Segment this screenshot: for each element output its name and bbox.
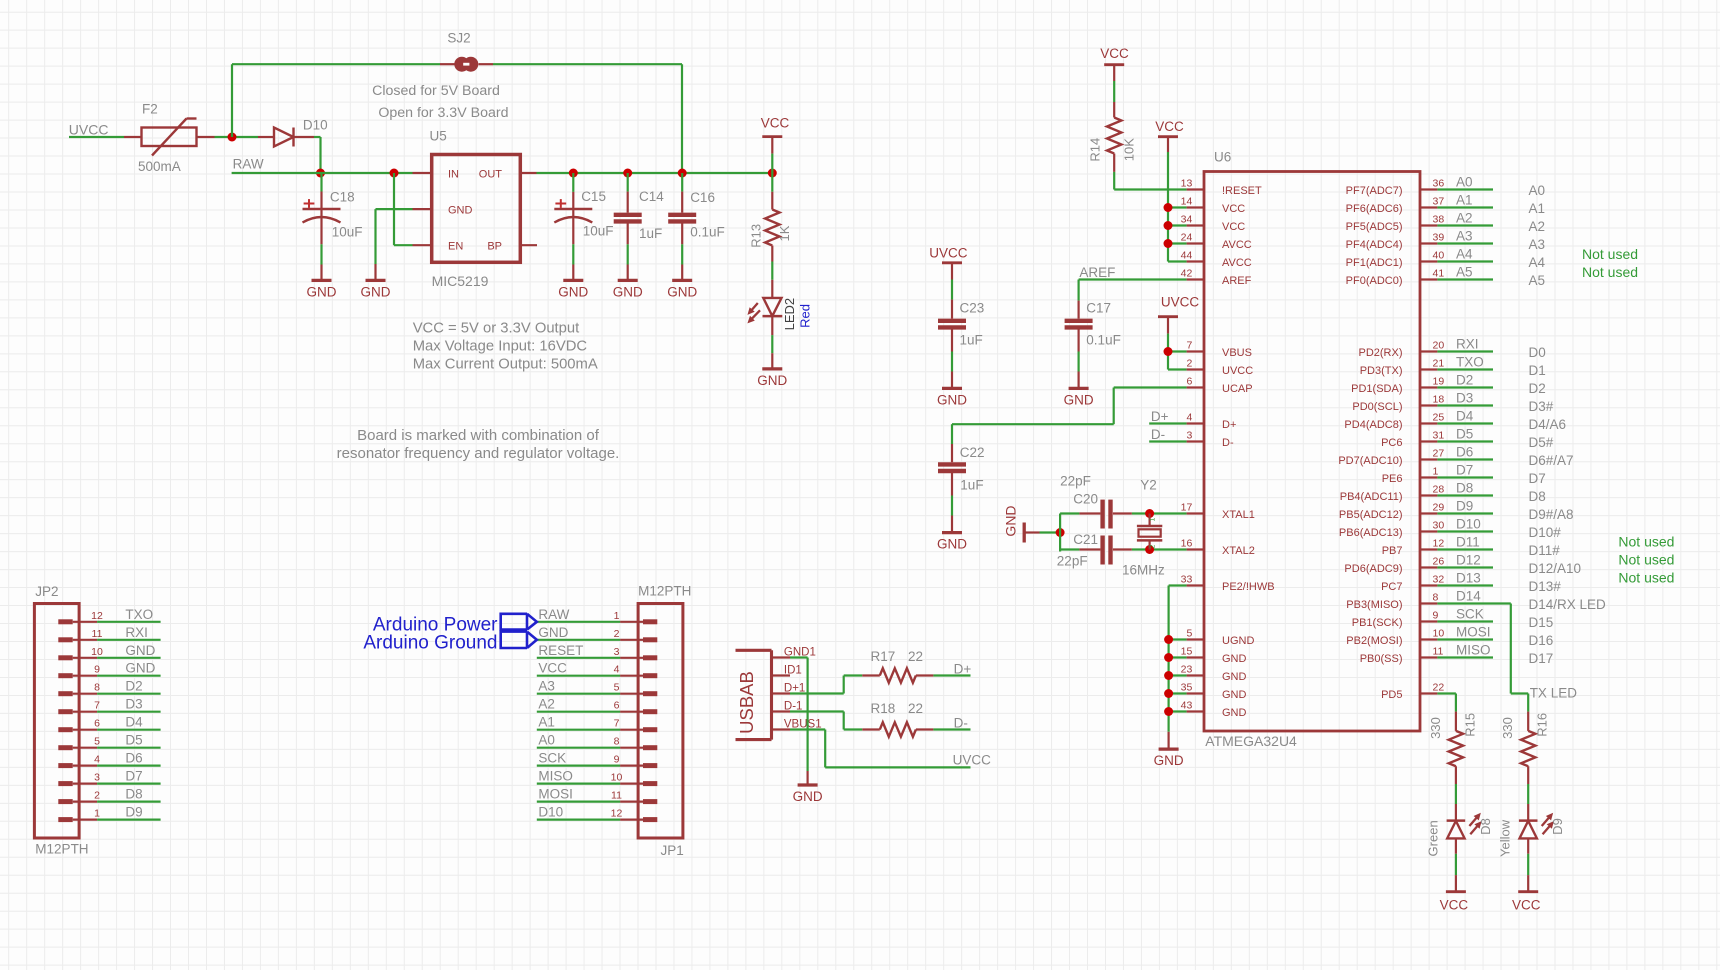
U6 pin 17 XTAL1: [1187, 512, 1204, 514]
USBAB pin VBUS1: [772, 728, 791, 730]
svg-text:AREF: AREF: [1222, 275, 1252, 287]
ground below C23: [942, 387, 962, 390]
svg-text:500mA: 500mA: [138, 159, 181, 174]
svg-text:Max Current Output: 500mA: Max Current Output: 500mA: [413, 356, 598, 372]
USBAB pin D-1: [772, 710, 791, 712]
wire D8 net: [1437, 494, 1493, 496]
svg-text:10uF: 10uF: [583, 224, 614, 239]
svg-text:37: 37: [1433, 196, 1445, 208]
svg-text:PB6(ADC13): PB6(ADC13): [1339, 527, 1403, 539]
LED D9: [1527, 804, 1529, 821]
svg-text:GND: GND: [1154, 753, 1184, 768]
svg-text:A1: A1: [1456, 193, 1473, 208]
svg-text:8: 8: [1433, 592, 1439, 604]
svg-text:8: 8: [94, 682, 100, 694]
svg-text:A4: A4: [1529, 255, 1546, 270]
svg-text:TXO: TXO: [1456, 355, 1484, 370]
svg-text:VCC: VCC: [761, 115, 790, 130]
wire R14 to !RESET: [1113, 172, 1115, 190]
svg-text:14: 14: [1181, 196, 1193, 208]
svg-text:5: 5: [1186, 628, 1192, 640]
svg-text:UVCC: UVCC: [953, 753, 992, 768]
svg-text:D3: D3: [1456, 391, 1473, 406]
U6 pin 22 PD5: [1420, 692, 1437, 694]
svg-text:GND: GND: [1222, 689, 1247, 701]
svg-text:6: 6: [94, 718, 100, 730]
capacitor C15: [572, 173, 574, 192]
wire VBUS1 to UVCC: [790, 728, 825, 730]
svg-text:D+: D+: [1151, 409, 1169, 424]
USB connector USBAB: [736, 649, 772, 652]
svg-text:GND: GND: [1003, 505, 1019, 536]
U6 pin 8 PB3(MISO): [1420, 602, 1437, 604]
svg-text:16: 16: [1181, 538, 1193, 550]
svg-text:MOSI: MOSI: [538, 787, 573, 802]
svg-text:PB4(ADC11): PB4(ADC11): [1340, 491, 1403, 503]
capacitor C21: [1079, 548, 1100, 550]
svg-text:A5: A5: [1529, 273, 1546, 288]
svg-text:BP: BP: [487, 240, 502, 252]
svg-text:C21: C21: [1073, 532, 1098, 547]
JP1 pin 8 (A0): [620, 747, 643, 749]
svg-text:1: 1: [1433, 466, 1439, 478]
JP2 pin 12 (TXO): [58, 619, 72, 624]
svg-text:PD3(TX): PD3(TX): [1360, 365, 1403, 377]
svg-text:D7: D7: [1529, 471, 1546, 486]
junction RAW-EN tap: [390, 169, 399, 178]
svg-text:C20: C20: [1073, 492, 1098, 507]
svg-text:VCC: VCC: [1222, 221, 1245, 233]
wire GND1 to ground: [790, 656, 808, 658]
svg-text:EN: EN: [448, 240, 463, 252]
svg-text:12: 12: [611, 808, 623, 820]
wire up to SJ2 rail: [231, 64, 233, 137]
svg-text:3: 3: [614, 646, 620, 658]
U6 pin 7 VBUS: [1187, 350, 1204, 352]
JP2 pin 2 (D8): [58, 799, 72, 804]
svg-text:GND: GND: [361, 284, 391, 299]
svg-text:D7: D7: [125, 769, 142, 784]
wire R16 to LED: [1527, 784, 1529, 804]
svg-text:ATMEGA32U4: ATMEGA32U4: [1205, 733, 1297, 749]
wire A2 net: [1437, 224, 1493, 226]
svg-text:AREF: AREF: [1079, 265, 1115, 280]
svg-text:TX LED: TX LED: [1530, 686, 1578, 701]
svg-text:GND: GND: [558, 284, 588, 299]
svg-text:28: 28: [1433, 484, 1445, 496]
svg-text:11: 11: [611, 790, 622, 802]
svg-text:A3: A3: [538, 679, 555, 694]
svg-text:23: 23: [1181, 664, 1193, 676]
svg-text:VCC: VCC: [1100, 46, 1129, 61]
svg-text:10: 10: [611, 772, 623, 784]
wire C21 to XTAL2: [1132, 548, 1187, 550]
svg-text:11: 11: [92, 628, 103, 640]
svg-text:SJ2: SJ2: [447, 30, 470, 45]
svg-text:D8: D8: [1478, 818, 1493, 835]
svg-text:A0: A0: [1529, 183, 1546, 198]
svg-text:RXI: RXI: [1456, 337, 1479, 352]
U6 pin 27 PD7(ADC10): [1420, 458, 1437, 460]
svg-text:D6#/A7: D6#/A7: [1529, 453, 1574, 468]
U6 pin 38 PF5(ADC5): [1420, 224, 1437, 226]
svg-text:21: 21: [1433, 358, 1445, 370]
svg-text:SCK: SCK: [1456, 607, 1484, 622]
svg-text:D11: D11: [1456, 535, 1480, 550]
svg-text:2: 2: [1186, 358, 1192, 370]
svg-text:R17: R17: [871, 649, 896, 664]
junction C16: [678, 169, 687, 178]
svg-text:1K: 1K: [777, 225, 792, 241]
U6 pin 44 AVCC: [1187, 260, 1204, 262]
JP2 pin 8 (D2): [58, 691, 72, 696]
wire VCC to U6 pins: [1167, 152, 1169, 262]
wire A4 net: [1437, 260, 1493, 262]
JP1 pin 10 (MISO): [620, 782, 643, 784]
junction GND pin 23: [1164, 671, 1173, 680]
svg-text:3: 3: [1186, 430, 1192, 442]
svg-text:6: 6: [1186, 376, 1192, 388]
svg-text:D11#: D11#: [1529, 543, 1561, 558]
U6 pin 39 PF4(ADC4): [1420, 242, 1437, 244]
svg-text:10: 10: [1433, 628, 1445, 640]
JP1 pin 5 (A3): [620, 693, 643, 695]
svg-text:18: 18: [1433, 394, 1445, 406]
USBAB pin D+1: [772, 692, 791, 694]
svg-text:UVCC: UVCC: [929, 245, 968, 260]
svg-text:D16: D16: [1529, 633, 1554, 648]
U6 pin 21 PD3(TX): [1420, 368, 1437, 370]
svg-text:D9: D9: [1456, 499, 1473, 514]
svg-text:GND: GND: [448, 204, 473, 216]
svg-text:9: 9: [1433, 610, 1439, 622]
svg-text:1uF: 1uF: [639, 226, 662, 241]
svg-text:Board is marked with combinati: Board is marked with combination of: [357, 427, 600, 444]
wire RXI net: [1437, 350, 1493, 352]
junction GND pin 35: [1164, 689, 1173, 698]
wire MISO net: [1437, 656, 1493, 658]
wire D-1 to R18: [790, 710, 844, 712]
solder jumper SJ2: [440, 63, 455, 65]
U6 pin 35 GND: [1187, 692, 1204, 694]
svg-text:UGND: UGND: [1222, 635, 1254, 647]
svg-text:D10#: D10#: [1529, 525, 1562, 540]
junction fuse output: [228, 133, 237, 142]
IC U6 ATMEGA32U4: [1204, 172, 1420, 732]
wire C20 to XTAL1: [1132, 512, 1187, 514]
JP2 pin 3 (D7): [58, 781, 72, 786]
svg-text:PF1(ADC1): PF1(ADC1): [1346, 257, 1403, 269]
svg-text:31: 31: [1433, 430, 1445, 442]
U6 pin 30 PB6(ADC13): [1420, 530, 1437, 532]
U6 pin 43 GND: [1187, 710, 1204, 712]
svg-text:PB7: PB7: [1382, 545, 1403, 557]
JP1 pin 3 (RESET): [620, 657, 643, 659]
svg-text:XTAL1: XTAL1: [1222, 509, 1255, 521]
junction AVCC pin 24: [1164, 239, 1173, 248]
svg-text:MIC5219: MIC5219: [432, 273, 489, 289]
U6 pin 24 AVCC: [1187, 242, 1204, 244]
svg-text:A3: A3: [1456, 229, 1473, 244]
svg-text:UCAP: UCAP: [1222, 383, 1253, 395]
U6 pin 5 UGND: [1187, 638, 1204, 640]
svg-text:PD1(SDA): PD1(SDA): [1351, 383, 1402, 395]
svg-text:1: 1: [1150, 517, 1157, 521]
wire R15 to LED: [1455, 784, 1457, 804]
U6 pin 1 PE6: [1420, 476, 1437, 478]
svg-text:Red: Red: [798, 304, 813, 328]
svg-text:VCC: VCC: [1440, 898, 1469, 913]
U6 pin 14 VCC: [1187, 206, 1204, 208]
wire VCC output rail: [537, 172, 773, 174]
svg-text:A4: A4: [1456, 247, 1473, 262]
junction GND pin 15: [1164, 653, 1173, 662]
wire D10 to RAW: [314, 136, 321, 138]
U6 pin 42 AREF: [1187, 278, 1204, 280]
junction crystal gnd: [1056, 528, 1065, 537]
svg-text:PB0(SS): PB0(SS): [1360, 653, 1403, 665]
svg-text:22: 22: [908, 701, 923, 716]
svg-text:A3: A3: [1529, 237, 1546, 252]
U6 pin 9 PB1(SCK): [1420, 620, 1437, 622]
wire A1 net: [1437, 206, 1493, 208]
svg-text:R13: R13: [749, 224, 764, 248]
ground below C16: [672, 279, 692, 282]
svg-text:330: 330: [1500, 717, 1515, 739]
wire RAW rail: [232, 172, 413, 174]
JP2 pin 5 (D5): [58, 745, 72, 750]
supply VCC below D8: [1446, 890, 1466, 893]
LED D8: [1455, 804, 1457, 821]
svg-text:Not used: Not used: [1582, 264, 1638, 280]
U6 pin 23 GND: [1187, 674, 1204, 676]
wire LED D9 to VCC: [1527, 854, 1529, 875]
wire D7 net: [1437, 476, 1493, 478]
junction C14: [623, 169, 632, 178]
crystal Y2: [1148, 514, 1150, 527]
svg-text:D+: D+: [954, 662, 972, 677]
diode D10: [258, 136, 274, 138]
wire PE2 to GND rail: [1169, 584, 1187, 586]
junction XTAL2: [1145, 545, 1154, 554]
wire AREF: [1079, 278, 1187, 280]
svg-text:Not used: Not used: [1582, 246, 1638, 262]
svg-text:20: 20: [1433, 340, 1445, 352]
ground below LED2: [762, 367, 782, 370]
svg-text:R15: R15: [1462, 713, 1477, 737]
svg-text:D+: D+: [1222, 419, 1236, 431]
svg-text:8: 8: [614, 736, 620, 748]
svg-text:2: 2: [614, 628, 620, 640]
svg-text:PF6(ADC6): PF6(ADC6): [1346, 203, 1403, 215]
svg-text:D12/A10: D12/A10: [1529, 561, 1582, 576]
resistor R14: [1113, 81, 1115, 102]
svg-text:38: 38: [1433, 214, 1445, 226]
wire UCAP to C22: [1114, 386, 1187, 388]
svg-text:C18: C18: [330, 190, 355, 205]
svg-text:D14/RX LED: D14/RX LED: [1529, 597, 1607, 612]
svg-text:Not used: Not used: [1618, 570, 1674, 586]
svg-text:D14: D14: [1456, 589, 1481, 604]
junction XTAL1: [1145, 509, 1154, 518]
svg-text:PD6(ADC9): PD6(ADC9): [1344, 563, 1402, 575]
svg-text:D1: D1: [1529, 363, 1546, 378]
svg-text:A0: A0: [538, 733, 555, 748]
svg-text:PB5(ADC12): PB5(ADC12): [1339, 509, 1403, 521]
junction VCC pin 34: [1164, 221, 1173, 230]
svg-text:GND: GND: [125, 643, 155, 658]
svg-text:GND: GND: [1222, 671, 1247, 683]
svg-text:C23: C23: [960, 301, 985, 316]
svg-text:resonator frequency and regula: resonator frequency and regulator voltag…: [337, 445, 620, 462]
svg-text:D5: D5: [125, 733, 142, 748]
wire UVCC input: [69, 136, 124, 138]
JP1 pin 1 (RAW): [620, 621, 643, 623]
svg-text:D10: D10: [1456, 517, 1481, 532]
wire D9 net: [1437, 512, 1493, 514]
ground below C15: [563, 279, 583, 282]
svg-text:16MHz: 16MHz: [1122, 563, 1165, 578]
svg-text:5: 5: [614, 682, 620, 694]
JP2 pin 9 (GND): [58, 673, 72, 678]
USBAB pin GND1: [772, 656, 791, 658]
wire fuse to D10 node: [215, 136, 259, 138]
svg-text:UVCC: UVCC: [1222, 365, 1253, 377]
U6 pin 16 XTAL2: [1187, 548, 1204, 550]
svg-text:RAW: RAW: [538, 607, 569, 622]
svg-text:10K: 10K: [1122, 138, 1137, 161]
U6 pin 36 PF7(ADC7): [1420, 188, 1437, 190]
svg-text:C22: C22: [960, 445, 985, 460]
capacitor C14: [627, 173, 629, 192]
svg-text:44: 44: [1181, 250, 1193, 262]
wire LED D8 to VCC: [1455, 854, 1457, 875]
svg-text:GND: GND: [793, 789, 823, 804]
svg-text:GND: GND: [125, 661, 155, 676]
wire D10 net: [1437, 530, 1493, 532]
svg-text:GND: GND: [667, 284, 697, 299]
svg-text:PF7(ADC7): PF7(ADC7): [1346, 185, 1403, 197]
wire SJ2 to VCC rail: [493, 63, 682, 65]
svg-text:2: 2: [94, 790, 100, 802]
U6 pin 32 PC7: [1420, 584, 1437, 586]
junction D10-RAW: [316, 169, 325, 178]
svg-text:PD4(ADC8): PD4(ADC8): [1344, 419, 1402, 431]
svg-text:25: 25: [1433, 412, 1445, 424]
svg-text:0.1uF: 0.1uF: [1086, 333, 1121, 348]
junction C15: [569, 169, 578, 178]
capacitor C16: [681, 173, 683, 192]
svg-text:RXI: RXI: [125, 625, 148, 640]
svg-text:A2: A2: [1529, 219, 1546, 234]
wire D+ stub: [1149, 422, 1186, 424]
wire D2 net: [1437, 386, 1493, 388]
flag Arduino Power: [501, 614, 527, 630]
ground below C18: [312, 279, 332, 282]
ground below U5: [366, 279, 386, 282]
svg-text:GND: GND: [937, 537, 967, 552]
svg-text:34: 34: [1181, 214, 1193, 226]
U6 pin 20 PD2(RX): [1420, 350, 1437, 352]
svg-text:9: 9: [614, 754, 620, 766]
svg-text:D9#/A8: D9#/A8: [1529, 507, 1574, 522]
svg-text:22pF: 22pF: [1057, 554, 1088, 569]
svg-text:D4/A6: D4/A6: [1529, 417, 1567, 432]
svg-text:C14: C14: [639, 189, 664, 204]
svg-text:C17: C17: [1086, 301, 1111, 316]
svg-text:41: 41: [1433, 268, 1445, 280]
svg-text:11: 11: [1433, 646, 1444, 658]
JP1 pin 12 (D10): [620, 818, 643, 820]
svg-text:Yellow: Yellow: [1498, 819, 1513, 857]
svg-text:A2: A2: [538, 697, 555, 712]
svg-text:4: 4: [1186, 412, 1192, 424]
resistor R13: [771, 173, 773, 192]
svg-text:D10: D10: [303, 117, 328, 132]
svg-text:D0: D0: [1529, 345, 1546, 360]
svg-text:GND: GND: [937, 392, 967, 407]
svg-text:Closed for 5V Board: Closed for 5V Board: [372, 83, 500, 99]
U6 pin 19 PD1(SDA): [1420, 386, 1437, 388]
wire U5 GND pin to ground: [376, 208, 413, 210]
svg-text:D8: D8: [125, 787, 142, 802]
svg-text:VCC: VCC: [1512, 898, 1541, 913]
capacitor C23: [951, 280, 953, 300]
svg-text:D5: D5: [1456, 427, 1473, 442]
svg-text:PE6: PE6: [1382, 473, 1403, 485]
svg-text:R16: R16: [1535, 713, 1550, 737]
svg-text:GND: GND: [757, 373, 787, 388]
svg-text:JP2: JP2: [35, 584, 58, 599]
svg-text:AVCC: AVCC: [1222, 239, 1252, 251]
svg-text:PD0(SCL): PD0(SCL): [1352, 401, 1402, 413]
svg-text:12: 12: [1433, 538, 1445, 550]
svg-text:GND: GND: [1222, 653, 1247, 665]
svg-text:26: 26: [1433, 556, 1445, 568]
ground at crystal (rotated): [1023, 523, 1026, 543]
svg-text:10uF: 10uF: [332, 225, 363, 240]
svg-text:C16: C16: [690, 190, 715, 205]
svg-text:D9: D9: [125, 805, 142, 820]
wire R18 to D- label: [933, 728, 970, 730]
svg-text:19: 19: [1433, 376, 1445, 388]
U6 pin 18 PD0(SCL): [1420, 404, 1437, 406]
JP1 pin 7 (A1): [620, 729, 643, 731]
JP2 pin 10 (GND): [58, 655, 72, 660]
U6 pin 26 PD6(ADC9): [1420, 566, 1437, 568]
svg-text:1: 1: [614, 610, 620, 622]
svg-text:4: 4: [94, 754, 100, 766]
U6 pin 3 D-: [1187, 440, 1204, 442]
wire R17 to D+ label: [933, 674, 970, 676]
svg-text:VCC: VCC: [538, 661, 567, 676]
fuse F2: [124, 136, 142, 138]
svg-text:R14: R14: [1088, 138, 1103, 162]
U6 pin 12 PB7: [1420, 548, 1437, 550]
svg-text:UVCC: UVCC: [69, 122, 109, 138]
svg-text:7: 7: [614, 718, 620, 730]
svg-text:PB2(MOSI): PB2(MOSI): [1346, 635, 1402, 647]
svg-text:D3: D3: [125, 697, 142, 712]
wire D6 net: [1437, 458, 1493, 460]
ground below C17: [1069, 387, 1089, 390]
svg-text:3: 3: [94, 772, 100, 784]
svg-text:PB1(SCK): PB1(SCK): [1352, 617, 1403, 629]
svg-text:D13#: D13#: [1529, 579, 1562, 594]
wire D5 net: [1437, 440, 1493, 442]
svg-text:PD7(ADC10): PD7(ADC10): [1338, 455, 1402, 467]
junction VCC-R13: [768, 169, 777, 178]
